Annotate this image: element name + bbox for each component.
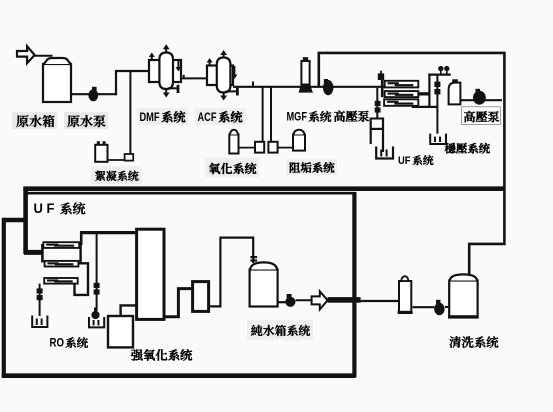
ACF filter vessel U-ACF: [207, 66, 233, 86]
cleaning tank 清洗水箱: [449, 281, 477, 318]
label 高压泵 (left): [334, 111, 345, 122]
label 高压泵 (right) with box: [462, 107, 501, 125]
wire inlet to raw water tank: [35, 55, 53, 57]
pure water pump: [285, 297, 295, 307]
svg-text:ACF: ACF: [198, 110, 217, 124]
ACF drain branch + valve tick: [226, 90, 238, 92]
RO product riser: [80, 233, 83, 245]
wire pump to block arrow: [296, 299, 312, 301]
dosing box right: [268, 142, 277, 153]
ACF bottom drain arrow: [223, 92, 225, 97]
top-right loop: pump riser, top run, right drop to cleaning tank: [319, 53, 505, 276]
ACF internal down arrow: [233, 66, 235, 76]
RO left drain open box: [32, 316, 47, 328]
flocculant tank 絮凝: [95, 145, 107, 162]
RO left manifold: [41, 244, 44, 263]
label 稳压系统: [445, 143, 456, 154]
svg-text:RO: RO: [50, 336, 65, 350]
strong oxidation column: [137, 229, 164, 319]
RO stage1-2 right interconnect: [79, 244, 81, 263]
label DMF系统: [137, 108, 188, 125]
UF membrane module 3: [384, 99, 418, 106]
RO membrane module 1: [43, 242, 79, 248]
inlet block arrow: [17, 46, 35, 63]
label 氧化系统: [205, 158, 259, 177]
label 原水箱: [12, 112, 57, 129]
RO middle drain valves: [94, 283, 100, 288]
pump 原水泵: [88, 89, 98, 101]
wire box to antiscalant tank: [278, 147, 293, 149]
label 纯水箱系统: [247, 320, 313, 340]
wire surge tank to HP pump 2: [460, 99, 502, 101]
UF feed manifold: [381, 79, 384, 97]
thick pipe outer left down: [2, 218, 6, 378]
column outlet path: [163, 289, 193, 317]
raw water tank 原水箱: [43, 64, 71, 102]
label ACF系统: [195, 108, 246, 125]
DMF filter vessel U-DMF: [149, 60, 181, 82]
DMF drain branch + valve tick: [168, 87, 178, 89]
wire border to cartridge filter: [356, 300, 399, 302]
UF module2 outlet bar: [418, 92, 429, 95]
svg-text:DMF: DMF: [140, 110, 160, 124]
UF module3 outlet run: [412, 106, 438, 108]
wire oxidation tank to box: [239, 147, 256, 149]
UF membrane module 2: [385, 91, 419, 97]
DMF top vent arrow: [165, 48, 167, 53]
RO product run to oxidizer column: [80, 231, 138, 234]
label 阻垢系统: [286, 159, 337, 175]
svg-text:MGF: MGF: [287, 111, 308, 123]
UF drain valves: [375, 101, 381, 106]
fork crossbars: [370, 118, 384, 120]
wire cartridge to cleaning pump: [413, 306, 435, 308]
MGF filter column: [301, 61, 309, 85]
flocculant drop line 絮凝: [129, 71, 131, 155]
UF product top run to surge tank: [428, 73, 450, 75]
RO membrane module 2: [45, 261, 79, 267]
wire degas vessel to riser: [209, 238, 255, 307]
dosing box stem: [121, 305, 137, 316]
RO stage2 outlet stub: [78, 262, 89, 264]
UF drain open box: [376, 147, 393, 159]
thick pipe jog left: [4, 218, 27, 223]
thick pipe left drop: [23, 187, 28, 255]
wire tank to raw pump: [71, 93, 89, 95]
RO drain pump blob: [91, 311, 99, 319]
outlet block arrow: [312, 291, 328, 309]
high pressure pump 1 高压泵: [323, 80, 333, 95]
UF drain fork left branch: [370, 118, 372, 145]
UF drain fork right branch into box: [382, 118, 384, 153]
ACF top vent arrow: [223, 54, 225, 58]
vent dots on top run: [438, 66, 443, 71]
oxidation tank 氧化: [229, 135, 238, 154]
RO membrane module 3: [44, 278, 77, 284]
antiscalant dosing drop line 2: [270, 87, 272, 142]
wire cleaning pump to tank: [445, 306, 449, 308]
cleaning pump: [434, 303, 444, 315]
antiscalant tank 阻垢: [293, 135, 305, 151]
label 絮凝系统: [91, 166, 142, 184]
wire pump to DMF: [98, 93, 117, 95]
thick product transfer pipe: [23, 186, 504, 191]
tick on main line: [252, 82, 254, 87]
dosing box left: [255, 142, 264, 153]
tank outlet stub: [278, 301, 286, 303]
RO middle drain open box: [89, 317, 104, 327]
UF product riser: [428, 74, 430, 108]
UF drain line: [376, 88, 378, 119]
MGF flared base: [299, 85, 313, 93]
label 清洗系统: [449, 336, 461, 348]
UF bypass drop with valves: [436, 75, 438, 134]
wire flocculant tank to box: [108, 159, 125, 161]
ACF left mini arrow: [209, 62, 211, 66]
surge drain open box 稳压: [430, 134, 446, 144]
UF membrane module 1: [385, 81, 419, 88]
flocculant injection box: [125, 154, 134, 161]
DMF bottom drain arrow: [165, 89, 167, 94]
RO left drain valves: [37, 288, 43, 293]
cartridge filter vessel: [399, 281, 411, 313]
lower box top border: [26, 192, 355, 195]
manifold valve dot: [378, 73, 384, 80]
label 原水泵: [64, 112, 108, 129]
RO feed stub: [24, 250, 43, 255]
label 强氧化系统: [131, 349, 143, 360]
oxidation dosing drop line 1: [262, 87, 264, 142]
svg-text:UF: UF: [398, 155, 411, 167]
strong oxidation dosing box 强氧化: [108, 316, 133, 347]
main process line ACF to UF: [233, 86, 384, 88]
surge tank 稳压罐: [449, 83, 461, 105]
RO middle drain line: [96, 233, 98, 311]
wire DMF to ACF with tick: [181, 77, 207, 79]
DMF internal down arrow: [177, 61, 179, 69]
high pressure pump 2 高压泵: [473, 91, 486, 105]
thick outlet pipe through border: [328, 297, 361, 303]
DMF left mini arrow: [151, 56, 153, 61]
pure tank inlet drop with valve ticks: [252, 238, 254, 263]
RO left drain line: [39, 284, 41, 316]
lower box right border: [352, 192, 356, 378]
RO stage2-3 interconnect path: [75, 263, 89, 295]
degas small vessel: [193, 282, 209, 312]
pure water tank 纯水箱: [250, 270, 278, 307]
svg-text:U F: U F: [34, 201, 55, 216]
lower box bottom border: [2, 373, 356, 378]
